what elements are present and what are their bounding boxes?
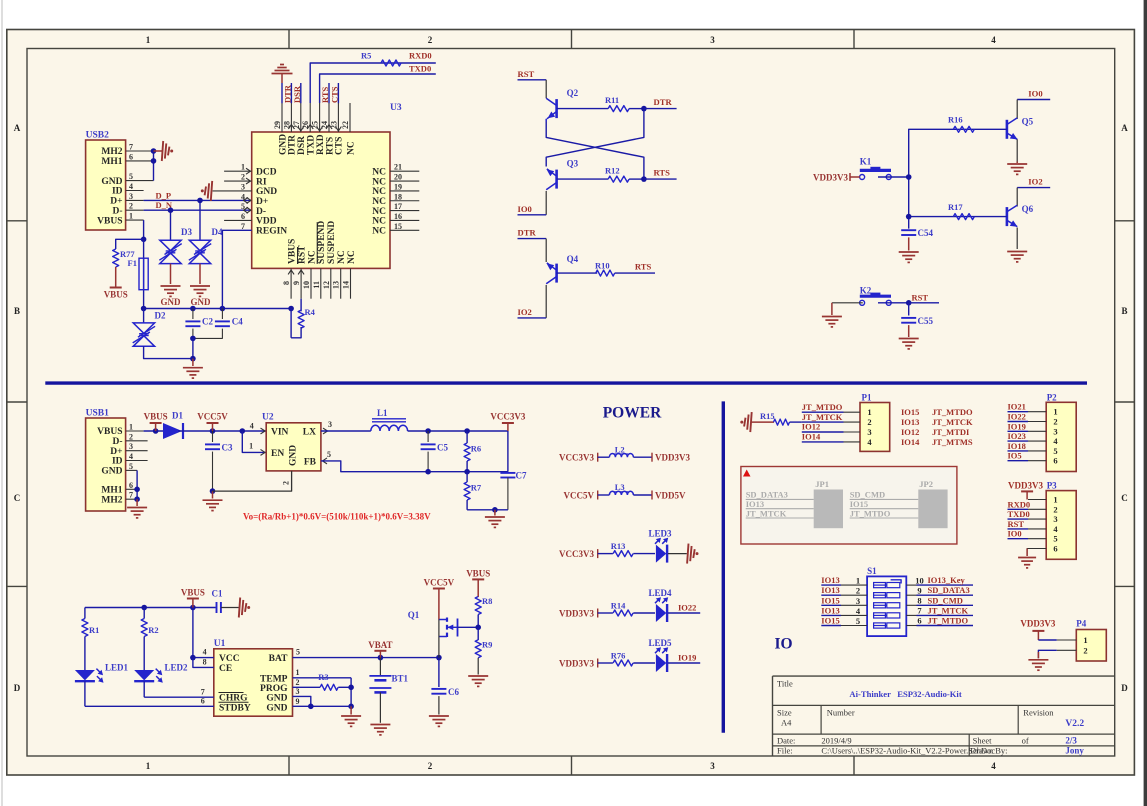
svg-text:D-: D-: [256, 207, 266, 217]
svg-text:IO13: IO13: [821, 605, 839, 615]
svg-text:VDD3V3: VDD3V3: [655, 453, 690, 463]
svg-text:JP2: JP2: [919, 479, 933, 489]
svg-text:VIN: VIN: [271, 428, 289, 438]
svg-text:A: A: [1121, 123, 1128, 133]
svg-text:3: 3: [867, 427, 871, 437]
svg-text:V2.2: V2.2: [1065, 719, 1084, 729]
svg-text:VBUS: VBUS: [104, 290, 128, 300]
svg-text:VBUS: VBUS: [181, 588, 205, 598]
svg-text:1: 1: [867, 407, 871, 417]
svg-text:D-: D-: [112, 437, 122, 447]
svg-text:JT_MTCK: JT_MTCK: [932, 417, 973, 427]
svg-text:1: 1: [129, 423, 133, 432]
svg-text:A: A: [14, 123, 21, 133]
svg-text:28: 28: [282, 121, 291, 129]
svg-text:C: C: [1121, 493, 1128, 503]
svg-text:JT_MTCK: JT_MTCK: [802, 412, 843, 422]
svg-text:1: 1: [1083, 635, 1087, 645]
svg-text:4: 4: [129, 452, 133, 461]
svg-text:Sheet: Sheet: [973, 736, 993, 746]
svg-text:C6: C6: [448, 687, 459, 697]
svg-text:K2: K2: [860, 286, 872, 296]
svg-text:LX: LX: [303, 428, 316, 438]
svg-text:IO19: IO19: [678, 653, 696, 663]
svg-text:IO18: IO18: [1008, 441, 1026, 451]
svg-text:DTR: DTR: [654, 97, 673, 107]
svg-text:R7: R7: [471, 483, 482, 493]
svg-text:VDD3V3: VDD3V3: [1020, 619, 1055, 629]
svg-text:LED5: LED5: [649, 638, 673, 648]
svg-text:R2: R2: [148, 625, 158, 635]
svg-text:Title: Title: [777, 679, 793, 689]
svg-text:SUSPEND: SUSPEND: [317, 221, 327, 264]
svg-text:VDD3V3: VDD3V3: [1008, 481, 1043, 491]
svg-text:C7: C7: [516, 471, 527, 481]
svg-text:C3: C3: [222, 443, 233, 453]
svg-text:U3: U3: [390, 103, 402, 113]
svg-text:P1: P1: [862, 392, 872, 402]
svg-text:3: 3: [1053, 514, 1057, 524]
svg-text:NC: NC: [337, 250, 347, 264]
svg-text:4: 4: [203, 648, 207, 657]
svg-text:3: 3: [1053, 426, 1057, 436]
svg-text:1: 1: [1053, 495, 1057, 505]
svg-text:D_P: D_P: [156, 190, 172, 200]
svg-text:2: 2: [241, 173, 245, 182]
svg-text:7: 7: [241, 222, 245, 231]
svg-text:3: 3: [710, 35, 715, 45]
svg-text:C55: C55: [918, 316, 934, 326]
svg-text:D-: D-: [112, 206, 122, 216]
svg-text:NC: NC: [372, 187, 386, 197]
svg-text:D+: D+: [110, 447, 122, 457]
svg-text:18: 18: [394, 192, 402, 201]
svg-text:R16: R16: [948, 115, 963, 125]
svg-text:2: 2: [428, 35, 433, 45]
svg-text:3: 3: [296, 687, 300, 696]
svg-text:R15: R15: [760, 411, 775, 421]
svg-text:IO13_Key: IO13_Key: [928, 575, 966, 585]
svg-text:2: 2: [1053, 504, 1057, 514]
svg-text:MH1: MH1: [101, 157, 122, 167]
svg-text:GND: GND: [161, 297, 182, 307]
svg-text:C: C: [14, 493, 21, 503]
svg-text:5: 5: [296, 648, 300, 657]
svg-text:12: 12: [322, 281, 331, 289]
svg-text:Q3: Q3: [567, 159, 579, 169]
svg-text:PROG: PROG: [260, 684, 288, 694]
svg-text:VCC: VCC: [219, 654, 240, 664]
svg-text:3: 3: [328, 420, 332, 429]
svg-text:3: 3: [710, 761, 715, 771]
svg-text:JT_MTDI: JT_MTDI: [932, 427, 970, 437]
svg-text:GND: GND: [101, 177, 122, 187]
svg-text:MH2: MH2: [101, 147, 122, 157]
svg-text:2: 2: [129, 432, 133, 441]
svg-text:IO12: IO12: [901, 427, 919, 437]
svg-text:NC: NC: [372, 197, 386, 207]
svg-text:4: 4: [129, 182, 133, 191]
svg-text:VCC3V3: VCC3V3: [490, 412, 525, 422]
svg-text:K1: K1: [860, 157, 872, 167]
svg-text:2/3: 2/3: [1065, 736, 1077, 746]
svg-text:JT_MTMS: JT_MTMS: [932, 437, 973, 447]
svg-text:IO22: IO22: [1008, 412, 1026, 422]
svg-text:IO15: IO15: [821, 595, 839, 605]
svg-text:of: of: [1022, 736, 1029, 746]
svg-text:C1: C1: [212, 589, 223, 599]
svg-text:20: 20: [394, 173, 402, 182]
svg-text:7: 7: [129, 491, 133, 500]
svg-text:11: 11: [312, 281, 321, 289]
svg-text:Vo=(Ra/Rb+1)*0.6V=(510k/110k+1: Vo=(Ra/Rb+1)*0.6V=(510k/110k+1)*0.6V=3.3…: [243, 512, 431, 522]
svg-text:CE: CE: [219, 664, 232, 674]
svg-text:Q5: Q5: [1022, 117, 1034, 127]
svg-text:R1: R1: [89, 625, 99, 635]
svg-text:EN: EN: [271, 449, 284, 459]
svg-text:MH1: MH1: [101, 486, 122, 496]
svg-text:6: 6: [1053, 456, 1057, 466]
svg-text:MH2: MH2: [101, 495, 122, 505]
svg-text:VDD3V3: VDD3V3: [813, 173, 848, 183]
svg-text:JT_MTDO: JT_MTDO: [850, 508, 891, 518]
svg-text:CTS: CTS: [330, 86, 340, 103]
svg-text:P4: P4: [1076, 619, 1086, 629]
svg-text:RTS: RTS: [654, 168, 671, 178]
svg-text:Number: Number: [827, 708, 855, 718]
svg-text:IO19: IO19: [1008, 421, 1026, 431]
svg-text:2: 2: [296, 678, 300, 687]
svg-text:Q4: Q4: [567, 254, 579, 264]
svg-text:RTS: RTS: [635, 262, 652, 272]
svg-text:NC: NC: [307, 250, 317, 264]
svg-text:22: 22: [341, 121, 350, 129]
svg-text:Q1: Q1: [408, 610, 420, 620]
svg-text:SUSPEND: SUSPEND: [327, 221, 337, 264]
svg-text:2: 2: [282, 481, 291, 485]
svg-text:3: 3: [129, 442, 133, 451]
svg-text:C2: C2: [202, 317, 213, 327]
svg-text:JT_MTDO: JT_MTDO: [802, 402, 843, 412]
svg-text:8: 8: [203, 658, 207, 667]
svg-text:IO5: IO5: [1008, 451, 1022, 461]
svg-text:NC: NC: [372, 227, 386, 237]
svg-text:VBUS: VBUS: [97, 427, 122, 437]
svg-text:LED1: LED1: [105, 663, 129, 673]
svg-text:IO0: IO0: [1028, 89, 1042, 99]
svg-text:L2: L2: [615, 444, 625, 454]
svg-text:VBAT: VBAT: [368, 640, 392, 650]
svg-text:B: B: [1121, 306, 1127, 316]
svg-text:D4: D4: [212, 227, 223, 237]
svg-text:BAT: BAT: [269, 654, 288, 664]
svg-text:5: 5: [856, 616, 860, 626]
svg-text:7: 7: [129, 143, 133, 152]
svg-text:6: 6: [129, 481, 133, 490]
svg-text:9: 9: [917, 585, 921, 595]
svg-text:NC: NC: [372, 177, 386, 187]
svg-text:VCC3V3: VCC3V3: [559, 549, 594, 559]
svg-text:D1: D1: [172, 411, 183, 421]
svg-text:VCC5V: VCC5V: [197, 412, 228, 422]
svg-text:IO22: IO22: [678, 603, 696, 613]
svg-text:ID: ID: [112, 187, 123, 197]
svg-text:RST: RST: [1008, 519, 1025, 529]
svg-text:DTR: DTR: [518, 228, 537, 238]
svg-text:NC: NC: [372, 167, 386, 177]
svg-text:1: 1: [296, 668, 300, 677]
svg-text:DCD: DCD: [256, 167, 277, 177]
svg-text:LED3: LED3: [649, 529, 673, 539]
svg-text:3: 3: [129, 192, 133, 201]
svg-text:F1: F1: [128, 258, 137, 268]
svg-text:10: 10: [915, 575, 924, 585]
svg-text:5: 5: [129, 462, 133, 471]
svg-text:P2: P2: [1047, 392, 1057, 402]
svg-text:1: 1: [146, 35, 151, 45]
svg-text:R11: R11: [605, 95, 619, 105]
svg-text:1: 1: [249, 442, 253, 451]
svg-text:R4: R4: [305, 307, 316, 317]
svg-text:GND: GND: [266, 703, 287, 713]
svg-text:R10: R10: [595, 261, 610, 271]
svg-text:L1: L1: [377, 408, 388, 418]
svg-text:IO13: IO13: [821, 575, 839, 585]
svg-text:3: 3: [241, 182, 245, 191]
svg-text:16: 16: [394, 212, 402, 221]
svg-text:Jony: Jony: [1065, 746, 1084, 756]
svg-text:B: B: [14, 306, 20, 316]
svg-text:LED2: LED2: [165, 663, 189, 673]
svg-text:IO2: IO2: [518, 307, 532, 317]
svg-text:FB: FB: [304, 458, 317, 468]
svg-text:VBUS: VBUS: [466, 569, 490, 579]
svg-text:6: 6: [1053, 544, 1057, 554]
svg-text:VDD3V3: VDD3V3: [559, 608, 594, 618]
svg-text:P3: P3: [1047, 481, 1057, 491]
svg-text:C5: C5: [437, 443, 448, 453]
svg-text:D: D: [14, 683, 21, 693]
svg-text:RXD0: RXD0: [1008, 499, 1031, 509]
svg-text:2: 2: [129, 202, 133, 211]
svg-text:Q2: Q2: [567, 88, 579, 98]
svg-text:Size: Size: [777, 708, 792, 718]
svg-text:6: 6: [241, 212, 245, 221]
svg-text:4: 4: [991, 35, 996, 45]
svg-text:USB1: USB1: [86, 409, 109, 419]
svg-text:RI: RI: [256, 177, 267, 187]
svg-text:2019/4/9: 2019/4/9: [821, 736, 851, 746]
svg-text:IO13: IO13: [821, 585, 839, 595]
svg-text:C4: C4: [232, 317, 243, 327]
svg-text:1: 1: [129, 212, 133, 221]
svg-text:3: 3: [856, 596, 860, 606]
svg-text:GND: GND: [101, 467, 122, 477]
svg-text:21: 21: [394, 163, 402, 172]
svg-text:VDD5V: VDD5V: [655, 490, 686, 500]
svg-text:D: D: [1121, 683, 1128, 693]
svg-text:13: 13: [332, 281, 341, 289]
svg-text:2: 2: [856, 586, 860, 596]
svg-text:IO15: IO15: [901, 407, 919, 417]
svg-text:17: 17: [394, 202, 402, 211]
svg-text:10: 10: [302, 281, 311, 289]
svg-text:IO15: IO15: [821, 616, 839, 626]
svg-text:Ai-Thinker ESP32-Audio-Kit: Ai-Thinker ESP32-Audio-Kit: [849, 689, 961, 699]
svg-text:15: 15: [394, 222, 402, 231]
svg-text:1: 1: [1053, 407, 1057, 417]
svg-text:RST: RST: [518, 69, 535, 79]
svg-text:Date:: Date:: [777, 736, 795, 746]
svg-text:JT_MTDO: JT_MTDO: [928, 616, 969, 626]
svg-text:IO14: IO14: [802, 432, 821, 442]
svg-text:IO2: IO2: [1028, 177, 1042, 187]
svg-text:6: 6: [917, 616, 921, 626]
svg-text:2: 2: [1083, 645, 1087, 655]
svg-text:TEMP: TEMP: [260, 674, 288, 684]
svg-text:GND: GND: [191, 297, 212, 307]
svg-text:1: 1: [856, 576, 860, 586]
svg-text:NC: NC: [346, 141, 356, 155]
svg-text:SD_DATA3: SD_DATA3: [928, 585, 970, 595]
svg-text:2: 2: [867, 417, 871, 427]
svg-text:9: 9: [292, 281, 301, 285]
svg-text:GND: GND: [266, 694, 287, 704]
svg-text:2: 2: [1053, 417, 1057, 427]
svg-text:4: 4: [250, 422, 254, 431]
svg-text:GND: GND: [289, 445, 299, 466]
svg-text:POWER: POWER: [603, 405, 662, 422]
svg-text:RXD0: RXD0: [409, 51, 432, 61]
svg-text:Q6: Q6: [1022, 204, 1034, 214]
svg-text:USB2: USB2: [86, 131, 109, 141]
svg-text:R14: R14: [611, 600, 626, 610]
svg-text:5: 5: [129, 172, 133, 181]
svg-text:BT1: BT1: [392, 674, 409, 684]
svg-text:R9: R9: [482, 640, 492, 650]
svg-text:C54: C54: [918, 228, 934, 238]
svg-text:IO23: IO23: [1008, 431, 1026, 441]
svg-text:4: 4: [991, 761, 996, 771]
svg-text:File:: File:: [777, 746, 793, 756]
svg-text:Drawn By:: Drawn By:: [970, 746, 1008, 756]
svg-text:VBUS: VBUS: [287, 239, 297, 264]
svg-text:REGIN: REGIN: [256, 227, 287, 237]
svg-text:JP1: JP1: [815, 479, 829, 489]
svg-text:R13: R13: [611, 541, 626, 551]
svg-text:DSR: DSR: [292, 85, 302, 103]
svg-text:JT_MTCK: JT_MTCK: [746, 508, 787, 518]
svg-text:5: 5: [1053, 534, 1057, 544]
svg-text:7: 7: [201, 688, 205, 697]
svg-text:R3: R3: [318, 672, 328, 682]
svg-text:6: 6: [129, 152, 133, 161]
svg-text:5: 5: [327, 450, 331, 459]
svg-text:U1: U1: [214, 639, 226, 649]
svg-text:U2: U2: [262, 413, 274, 423]
svg-text:IO: IO: [774, 636, 792, 653]
svg-text:STDBY: STDBY: [219, 703, 251, 713]
svg-text:TXD0: TXD0: [1008, 509, 1030, 519]
svg-text:1: 1: [146, 761, 151, 771]
svg-text:D3: D3: [181, 227, 192, 237]
svg-text:JT_MTDO: JT_MTDO: [932, 407, 973, 417]
svg-text:5: 5: [1053, 446, 1057, 456]
svg-text:S1: S1: [867, 566, 877, 576]
svg-text:VBUS: VBUS: [97, 216, 122, 226]
svg-text:IO12: IO12: [802, 422, 820, 432]
svg-text:D+: D+: [110, 197, 122, 207]
svg-text:VCC5V: VCC5V: [424, 578, 455, 588]
svg-text:IO14: IO14: [901, 437, 920, 447]
svg-text:VBUS: VBUS: [144, 412, 168, 422]
svg-text:R8: R8: [482, 596, 492, 606]
svg-text:A4: A4: [781, 718, 792, 728]
svg-text:R12: R12: [605, 166, 620, 176]
svg-text:29: 29: [273, 121, 282, 129]
svg-text:LED4: LED4: [649, 588, 673, 598]
svg-text:VCC3V3: VCC3V3: [559, 453, 594, 463]
svg-text:L3: L3: [615, 482, 625, 492]
svg-text:VDD3V3: VDD3V3: [559, 658, 594, 668]
svg-text:19: 19: [394, 182, 402, 191]
svg-text:GND: GND: [256, 187, 277, 197]
svg-text:14: 14: [342, 281, 351, 289]
svg-text:IO0: IO0: [1008, 529, 1022, 539]
svg-text:CTS: CTS: [335, 137, 345, 155]
svg-text:NC: NC: [347, 250, 357, 264]
svg-text:2: 2: [428, 761, 433, 771]
svg-text:8: 8: [917, 596, 921, 606]
svg-text:1: 1: [241, 163, 245, 172]
svg-text:R6: R6: [471, 444, 481, 454]
svg-text:VCC5V: VCC5V: [564, 490, 595, 500]
svg-text:ID: ID: [112, 457, 123, 467]
svg-text:Revision: Revision: [1023, 708, 1054, 718]
svg-text:VDD: VDD: [256, 217, 277, 227]
svg-text:IO21: IO21: [1008, 402, 1026, 412]
svg-text:NC: NC: [372, 217, 386, 227]
svg-text:8: 8: [282, 281, 291, 285]
svg-text:9: 9: [296, 697, 300, 706]
svg-text:NC: NC: [372, 207, 386, 217]
svg-text:D+: D+: [256, 197, 268, 207]
svg-text:SD_CMD: SD_CMD: [928, 595, 963, 605]
svg-text:TXD0: TXD0: [409, 64, 431, 74]
svg-text:JT_MTCK: JT_MTCK: [928, 605, 969, 615]
svg-text:R17: R17: [948, 202, 963, 212]
svg-text:IO0: IO0: [518, 204, 532, 214]
svg-text:D2: D2: [155, 311, 166, 321]
svg-text:R5: R5: [361, 51, 371, 61]
svg-text:R76: R76: [611, 650, 626, 660]
svg-text:RST: RST: [297, 245, 307, 264]
svg-text:IO13: IO13: [901, 417, 919, 427]
svg-text:RST: RST: [912, 293, 929, 303]
